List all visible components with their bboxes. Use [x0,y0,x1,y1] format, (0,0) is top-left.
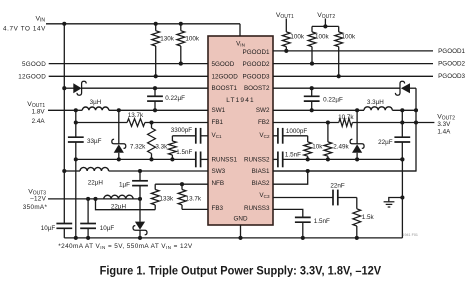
node 130k bottom dot [154,74,158,78]
node 22uF sw2 dot [400,108,404,112]
wire VOUT1 [48,109,76,111]
svg-text:10.7k: 10.7k [338,114,354,121]
node BIAS jog dot [306,169,310,173]
svg-text:BIAS2: BIAS2 [252,180,270,187]
capacitor 3300pF vc1 [172,135,195,137]
inductor L3A 22uH [64,170,80,172]
svg-text:3.3k: 3.3k [155,144,168,151]
svg-text:0.22µF: 0.22µF [165,95,185,102]
svg-text:PGOOD1: PGOOD1 [243,49,270,56]
resistor 13.7k fb1 [76,122,127,124]
wire 12GOOD [49,75,208,77]
svg-text:PGOOD3: PGOOD3 [243,73,270,80]
node pgood1 dot [284,49,288,53]
wire 22uF to SW2 [401,110,403,122]
svg-text:2.49k: 2.49k [333,144,349,151]
svg-text:10µF: 10µF [100,225,115,232]
node FB2 div dot [326,120,330,124]
svg-text:SW2: SW2 [256,107,270,114]
capacitor 1000pF vc2 [273,135,278,137]
node boost2 cap top dot [310,86,314,90]
wire 33uF gnd drop [75,159,77,238]
svg-text:350mA*: 350mA* [23,204,48,211]
node diode anode gnd dot [117,157,121,161]
svg-text:100k: 100k [290,33,305,40]
node FB1 vout dot [74,120,78,124]
ground symbol [389,198,403,202]
node 3.3k bottom dot [170,157,174,161]
svg-text:1.5k: 1.5k [362,214,375,221]
node 100k bottom dot [179,62,183,66]
resistor 2.49k [327,123,329,142]
svg-text:4.7V TO 14V: 4.7V TO 14V [3,26,46,33]
node NFB div dot [180,182,184,186]
svg-text:13.7k: 13.7k [186,195,202,202]
resistor 100k pullup [180,24,182,31]
svg-text:FB2: FB2 [258,119,270,126]
svg-text:VC2: VC2 [259,132,270,139]
svg-text:VIN: VIN [35,16,45,24]
node SW1 diode dot [117,108,121,112]
node L2 out dot [414,108,418,112]
svg-text:3.3V: 3.3V [437,121,451,128]
capacitor 0.22uF boost1 [154,88,156,96]
svg-text:VOUT2: VOUT2 [317,12,335,20]
wire SW2 [273,109,364,111]
svg-text:RUNSS2: RUNSS2 [244,157,270,164]
node 33uF bottom dot [74,157,78,161]
node gnd ch2 rail dot [400,157,404,161]
wire gnd line ch1 [76,158,196,160]
node runss3 rail dot [301,236,305,240]
wire GND pin [240,225,242,238]
capacitor 33uF vout1 [75,123,77,138]
svg-text:100k: 100k [315,33,330,40]
wire VIN rail top [46,23,240,25]
resistor 100k pgood2 [311,26,313,32]
diode D2 catch sw1 [118,110,120,144]
wire PGOOD2 [273,63,433,65]
node VOUT1 junction dot [74,108,78,112]
svg-text:10µF: 10µF [41,225,56,232]
node 22uF bottom dot [400,157,404,161]
wire BIAS2 jog [273,171,308,184]
node 7.32k bottom dot [149,157,153,161]
node VOUT2 node dot [414,120,418,124]
svg-text:1.4A: 1.4A [437,129,451,136]
resistor 3.3k vc1 [171,136,173,141]
resistor 100k pgood3 [338,26,340,32]
node 1.5k rail dot [355,236,359,240]
svg-text:NFB: NFB [212,180,225,187]
svg-text:–12V: –12V [30,195,46,202]
node 10k bottom dot [306,157,310,161]
svg-text:1.5nF: 1.5nF [285,151,301,158]
svg-text:BIAS1: BIAS1 [252,168,270,175]
node VOUT2 tee dot [323,24,327,28]
svg-text:3.3µH: 3.3µH [367,99,384,106]
node BOOST1 rail dot [62,86,66,90]
node boost2 cap bottom dot [310,108,314,112]
svg-text:1.8V: 1.8V [32,108,46,115]
svg-text:FB3: FB3 [212,205,224,212]
svg-text:FB1: FB1 [212,119,224,126]
wire VOUT3 [48,198,140,200]
inductor L3B 22uH [104,195,133,199]
svg-text:1.5nF: 1.5nF [314,218,330,225]
diode D5 catch sw2 [356,110,358,144]
resistor 1.5k [356,198,358,209]
wire NFB [155,183,208,185]
wire VIN left rail vertical [63,24,65,224]
wire PGOOD3 [273,75,433,77]
svg-text:3300pF: 3300pF [171,127,193,134]
capacitor 1.5nF runss2 [273,158,278,160]
svg-text:22µH: 22µH [88,180,104,187]
node VOUT3 1uF dot [138,197,142,201]
node VIN junction dot [62,22,66,26]
node boost1 cap bottom dot [153,108,157,112]
resistor 10.7k fb2 [273,122,339,124]
svg-text:13.7k: 13.7k [128,112,144,119]
svg-text:22nF: 22nF [330,182,345,189]
wire 5GOOD [49,63,208,65]
svg-text:GND: GND [234,216,248,223]
wire right gnd rail [401,159,403,238]
svg-text:PGOOD1: PGOOD1 [438,48,465,55]
svg-text:LT1941: LT1941 [226,97,254,104]
node 33uF rail dot [74,236,78,240]
wire PGOOD1 [273,50,433,52]
node 10uF rail dot [86,236,90,240]
resistor 10k vc2 [307,136,309,142]
svg-text:1000pF: 1000pF [286,128,308,135]
node gnd sym dot [400,195,404,199]
node VOUT3 loop dot [93,197,97,201]
capacitor 1.5nF runss3 [273,209,303,217]
node GND rail dot [238,236,242,240]
capacitor 22uF vout2 [401,123,403,138]
svg-text:133k: 133k [160,195,175,202]
svg-text:BOOST1: BOOST1 [212,85,238,92]
svg-text:5GOOD: 5GOOD [212,61,235,68]
svg-text:RUNSS1: RUNSS1 [212,157,238,164]
capacitor 0.22uF boost2 [311,88,313,96]
wire BIAS1 [273,170,416,172]
diode D4 schottky boost2 [273,87,400,89]
node 130k top dot [154,22,158,26]
node SW3 1uF dot [138,169,142,173]
resistor 100k pgood1 [285,19,287,32]
node pgood3 dot [337,74,341,78]
svg-text:PGOOD2: PGOOD2 [243,61,270,68]
wire VOUT2 top tee [324,19,326,27]
wire FB1 stub [75,110,77,122]
svg-text:PGOOD3: PGOOD3 [438,73,465,80]
diode D3 schottky vout3 [139,199,141,222]
wire ground rail [64,237,402,239]
node pgood2 dot [310,62,314,66]
diode D1 schottky boost1 [64,87,73,89]
svg-text:3µH: 3µH [90,99,102,106]
node D5 anode dot [355,157,359,161]
svg-text:RUNSS3: RUNSS3 [244,205,270,212]
svg-text:7.32k: 7.32k [130,144,146,151]
wire 133k loop [96,199,156,210]
svg-text:100k: 100k [342,33,357,40]
svg-text:VC1: VC1 [212,132,223,139]
node SW2 diode dot [355,108,359,112]
inductor L2 3.3uH [364,107,392,111]
svg-text:1941 F01: 1941 F01 [402,233,418,237]
wire boost2 corner [415,88,417,122]
svg-text:22µF: 22µF [378,139,393,146]
svg-text:VIN: VIN [236,40,245,47]
resistor 13.7k nfb [181,184,183,189]
svg-text:33µF: 33µF [87,138,102,145]
node VOUT2 22uF dot [400,120,404,124]
wire FB3 [182,208,208,210]
capacitor 1.5nF runss1 [195,158,197,160]
svg-text:VOUT1: VOUT1 [276,12,294,20]
svg-text:10k: 10k [312,144,323,151]
svg-text:0.22µF: 0.22µF [323,97,343,104]
svg-text:2.4A: 2.4A [32,118,46,125]
svg-text:1.5nF: 1.5nF [176,149,192,156]
svg-text:12GOOD: 12GOOD [212,73,239,80]
node VOUT3 10uF dot [86,197,90,201]
capacitor 22nF vc3 [273,197,333,199]
capacitor 1uF coupling [139,171,141,181]
svg-text:SW1: SW1 [212,107,226,114]
svg-text:12GOOD: 12GOOD [18,74,46,81]
resistor 130k [155,24,157,31]
svg-text:1µF: 1µF [119,181,130,188]
svg-text:SW3: SW3 [212,168,226,175]
resistor 7.32k [151,123,153,129]
node FB1 div dot [149,120,153,124]
svg-text:Figure 1. Triple Output Power: Figure 1. Triple Output Power Supply: 3.… [100,263,382,277]
wire gnd line ch2 [283,158,403,160]
node boost1 cap top dot [153,86,157,90]
inductor L1 3uH [76,109,83,111]
node D3 rail dot [138,236,142,240]
node SW3 rail dot [62,169,66,173]
svg-text:100k: 100k [185,35,200,42]
svg-text:PGOOD2: PGOOD2 [438,61,465,68]
capacitor 10uF vout3 [87,199,89,224]
svg-text:VC3: VC3 [259,192,270,199]
node 100k top dot [179,22,183,26]
svg-text:*240mA AT VIN = 5V, 550mA AT V: *240mA AT VIN = 5V, 550mA AT VIN = 12V [58,243,193,250]
svg-text:BOOST2: BOOST2 [244,85,270,92]
wire VOUT2 bias drop [273,123,416,172]
resistor 133k [154,184,156,189]
svg-text:130k: 130k [160,35,175,42]
op-amp U1 LT1941 IC body [208,36,273,225]
capacitor 10uF input [63,223,65,225]
svg-text:5GOOD: 5GOOD [22,61,46,68]
node 2.49k bottom dot [326,157,330,161]
